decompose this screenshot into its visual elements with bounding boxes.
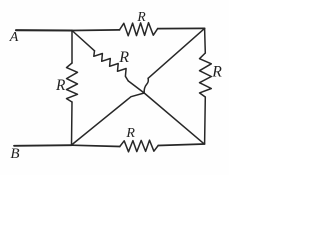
crossover hop (no connection) — [144, 78, 148, 93]
wire: bottom-left node up to crossover — [72, 93, 145, 145]
svg-text:R: R — [118, 49, 129, 66]
resistor R3 (right) — [200, 53, 212, 97]
wire: left branch lower segment — [71, 102, 74, 145]
wire: top-left node to resistor R1 — [72, 29, 120, 32]
wire: terminal B lead to bottom-left node — [14, 144, 72, 147]
wire: top-left node to diagonal resistor R4 — [72, 31, 95, 51]
svg-text:R: R — [136, 9, 146, 24]
svg-text:B: B — [10, 146, 19, 162]
wire: right branch lower segment — [204, 97, 207, 144]
wire: left branch upper segment — [71, 31, 73, 64]
wire: diagonal resistor R4 through crossover to bottom-right node — [128, 81, 204, 144]
resistor R2 (left) — [67, 63, 78, 102]
wire: terminal A lead to top-left node — [16, 29, 72, 31]
wire: right branch upper segment — [204, 28, 207, 53]
svg-text:R: R — [211, 64, 222, 81]
svg-text:A: A — [9, 30, 19, 45]
wire: bottom-left node to resistor R5 — [72, 145, 120, 146]
wire: resistor R5 to bottom-right node — [158, 144, 204, 146]
resistor R1 (top) — [120, 23, 158, 36]
resistor R4 (diagonal) — [94, 51, 128, 81]
wire: crossover to top-right node — [148, 28, 205, 78]
svg-text:R: R — [125, 126, 135, 141]
resistor R5 (bottom) — [120, 140, 158, 152]
wire: resistor R1 to top-right node — [158, 27, 205, 29]
svg-text:R: R — [55, 77, 66, 94]
